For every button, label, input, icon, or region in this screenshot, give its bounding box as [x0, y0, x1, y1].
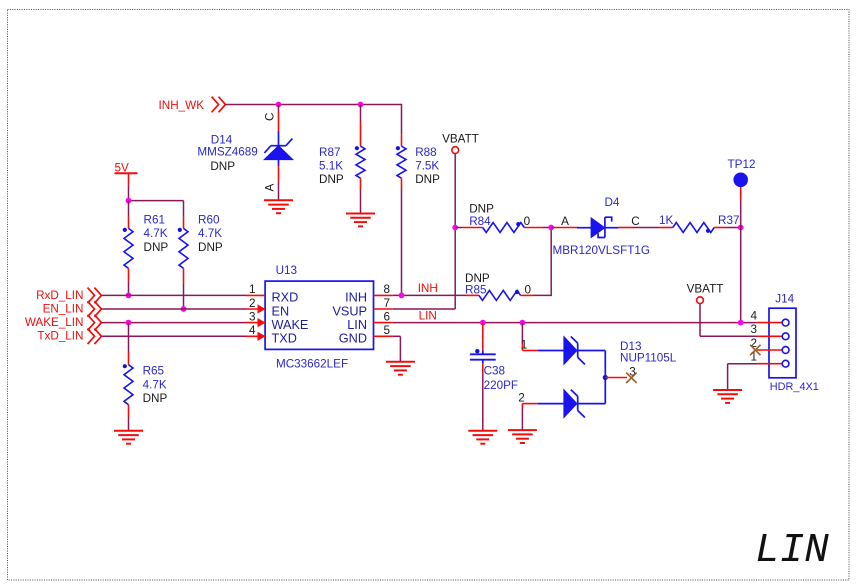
title LIN: [755, 528, 829, 574]
pin 1 circle of J14: [782, 360, 789, 367]
svg-text:R84: R84: [469, 215, 491, 228]
svg-text:R37: R37: [718, 214, 739, 227]
pin number 6: [384, 310, 391, 323]
pin name RXD: [272, 291, 299, 305]
label R37: [659, 214, 739, 227]
junction 5V/R61: [126, 198, 132, 204]
resistor R37: [660, 223, 741, 233]
svg-text:WAKE_LIN: WAKE_LIN: [25, 316, 84, 329]
pin 3 input arrow: [258, 318, 266, 327]
pin number 1 of J14: [750, 351, 757, 364]
pin label A of D4: [561, 215, 569, 228]
IC U13 body: [265, 281, 373, 349]
label D14: [197, 133, 257, 173]
svg-text:6: 6: [384, 310, 391, 323]
label R87: [319, 146, 344, 186]
svg-text:MC33662LEF: MC33662LEF: [276, 358, 348, 371]
svg-text:4.7K: 4.7K: [198, 227, 222, 240]
label U13: [276, 264, 297, 277]
pin 2 input arrow: [258, 304, 266, 313]
wire D4 anode: [551, 227, 577, 229]
svg-text:DNP: DNP: [319, 173, 344, 186]
pin name GND: [339, 332, 367, 346]
svg-text:INH: INH: [418, 282, 438, 295]
junction LIN/TP12: [738, 320, 744, 326]
pin name LIN: [347, 318, 367, 332]
svg-text:3: 3: [249, 310, 256, 323]
svg-text:DNP: DNP: [144, 241, 169, 254]
svg-text:INH: INH: [345, 291, 367, 305]
pin 1 stub of J14: [757, 363, 782, 365]
power 5V: [115, 162, 138, 175]
wire TP12 drop: [740, 187, 742, 323]
svg-text:2: 2: [518, 392, 525, 405]
wire RxD_LIN: [101, 294, 246, 296]
pin 1 stub of U13: [246, 294, 265, 296]
svg-text:RxD_LIN: RxD_LIN: [36, 289, 83, 302]
label C38: [484, 365, 518, 392]
ground below D13 pin2: [508, 430, 537, 443]
svg-text:A: A: [264, 184, 277, 192]
svg-text:EN_LIN: EN_LIN: [43, 302, 84, 315]
pin 3 circle of J14: [782, 333, 789, 340]
svg-text:1: 1: [249, 283, 256, 296]
wire EN_LIN: [101, 308, 246, 310]
svg-text:MMSZ4689: MMSZ4689: [197, 146, 257, 159]
svg-text:R88: R88: [415, 146, 436, 159]
net label LIN: [419, 310, 437, 323]
wire D13 pin1: [522, 323, 538, 351]
no-connect X on D13 pin3: [626, 373, 636, 383]
svg-text:1K: 1K: [659, 214, 674, 227]
resistor R85: [466, 290, 551, 301]
svg-text:1: 1: [521, 339, 528, 352]
junction LIN/C38: [480, 320, 486, 326]
svg-text:8: 8: [384, 283, 391, 296]
pin number 3: [249, 310, 256, 323]
wire VBATT to J14 pin3: [700, 304, 757, 337]
pin 6 stub of U13: [374, 322, 393, 324]
label R61: [144, 213, 169, 253]
ground below U13: [386, 362, 415, 375]
label R60: [198, 213, 223, 253]
resistor R61: [123, 201, 133, 296]
svg-text:C: C: [631, 215, 639, 228]
pin number 5: [384, 324, 391, 337]
wire 5V rail: [129, 200, 184, 202]
svg-text:5: 5: [384, 324, 391, 337]
wire R85 to node A: [550, 228, 552, 297]
wire R88 upper segment: [401, 104, 403, 134]
svg-text:7.5K: 7.5K: [415, 160, 439, 173]
pin 4 input arrow: [258, 332, 266, 341]
diode D4: [577, 217, 619, 237]
svg-text:LIN: LIN: [755, 528, 829, 574]
ground below D14: [264, 200, 293, 213]
svg-text:4.7K: 4.7K: [144, 227, 168, 240]
port WAKE_LIN: [25, 315, 102, 331]
pin number 3 of J14: [750, 323, 757, 336]
pin name INH: [345, 291, 367, 305]
label MBR120VLSFT1G: [553, 244, 650, 257]
svg-text:0: 0: [524, 215, 531, 228]
svg-text:TXD: TXD: [272, 332, 297, 346]
svg-text:LIN: LIN: [347, 318, 367, 332]
svg-text:MBR120VLSFT1G: MBR120VLSFT1G: [553, 244, 650, 257]
ground below R65: [114, 431, 143, 444]
pin 4 circle of J14: [782, 319, 789, 326]
wire D14 cathode: [278, 105, 280, 132]
svg-text:4: 4: [750, 309, 757, 322]
svg-text:GND: GND: [339, 332, 367, 346]
pin number 2: [249, 297, 256, 310]
svg-text:J14: J14: [775, 293, 794, 306]
wire J14 pin1 to ground: [728, 364, 757, 390]
pin 2 stub of J14: [757, 349, 782, 351]
label R65: [143, 365, 168, 406]
svg-text:3: 3: [750, 323, 757, 336]
wire VSUP: [393, 228, 456, 310]
pin label A of D14: [264, 184, 277, 192]
pin 7 stub of U13: [374, 308, 393, 310]
wire VBATT drop: [454, 154, 456, 228]
svg-text:A: A: [561, 215, 569, 228]
svg-text:INH_WK: INH_WK: [159, 99, 205, 112]
svg-text:C: C: [264, 113, 277, 121]
svg-text:U13: U13: [276, 264, 297, 277]
svg-text:C38: C38: [484, 365, 505, 378]
svg-text:7: 7: [384, 297, 391, 310]
junction R61/RxD: [126, 293, 132, 299]
pin name EN: [272, 304, 290, 318]
diode D14: [264, 131, 293, 166]
connector J14 body: [769, 308, 796, 378]
diode D13 lower: [538, 378, 605, 418]
pin number 3 of D13: [629, 366, 636, 379]
wire D13 pin3: [605, 377, 627, 379]
pin number 2 of J14: [750, 337, 757, 350]
pin number 4 of J14: [750, 309, 757, 322]
pin number 4: [249, 324, 256, 337]
svg-text:DNP: DNP: [143, 392, 168, 405]
svg-text:HDR_4X1: HDR_4X1: [770, 381, 819, 393]
capacitor C38: [470, 323, 496, 431]
pin name VSUP: [332, 304, 367, 318]
svg-text:5.1K: 5.1K: [319, 160, 343, 173]
svg-text:TxD_LIN: TxD_LIN: [37, 330, 83, 343]
junction INH_WK/D14: [276, 102, 282, 108]
label HDR_4X1: [770, 381, 819, 393]
port TxD_LIN: [37, 329, 101, 345]
resistor R65: [123, 323, 133, 431]
wire INH_WK rail: [226, 104, 402, 106]
pin number 1: [249, 283, 256, 296]
pin 3 stub of J14: [757, 335, 782, 337]
pin number 7: [384, 297, 391, 310]
svg-text:D4: D4: [605, 196, 620, 209]
resistor R87: [355, 105, 365, 214]
pin number 1 of D13: [521, 339, 528, 352]
pin number 2 of D13: [518, 392, 525, 405]
junction WAKE/R65: [126, 320, 132, 326]
ground below C38: [468, 431, 497, 444]
pin 5 stub of U13: [374, 335, 393, 337]
resistor R88: [396, 134, 406, 295]
testpoint TP12: [728, 158, 756, 187]
svg-text:R65: R65: [143, 365, 165, 378]
svg-text:R60: R60: [198, 213, 220, 226]
wire D14 anode: [278, 166, 280, 200]
pin label C of D14: [264, 113, 277, 121]
wire D13 pin2: [522, 404, 538, 431]
wire 5V drop: [128, 173, 130, 200]
svg-text:DNP: DNP: [415, 173, 440, 186]
label D4: [605, 196, 620, 209]
svg-text:R85: R85: [465, 284, 487, 297]
wire LIN: [393, 322, 757, 324]
svg-text:4: 4: [249, 324, 256, 337]
junction D13 common: [603, 375, 608, 380]
wire INH: [393, 294, 466, 296]
junction INH_WK/R87: [358, 102, 364, 108]
wire D4 cathode: [619, 227, 660, 229]
no-connect X on J14 pin2: [750, 345, 760, 355]
svg-text:VBATT: VBATT: [442, 132, 479, 145]
svg-text:EN: EN: [272, 304, 290, 318]
pin name WAKE: [272, 318, 309, 332]
svg-text:220PF: 220PF: [484, 379, 518, 392]
port EN_LIN: [43, 301, 102, 317]
svg-text:VSUP: VSUP: [332, 304, 367, 318]
svg-text:DNP: DNP: [469, 202, 494, 215]
junction node A: [548, 225, 554, 231]
junction INH/R88: [399, 293, 405, 299]
junction R60/EN: [181, 306, 187, 312]
label D13: [620, 340, 677, 365]
pin 3 stub of U13: [246, 322, 265, 324]
power VBATT upper: [442, 132, 479, 153]
resistor R84: [455, 222, 551, 233]
label R85: [465, 272, 532, 296]
svg-text:LIN: LIN: [419, 310, 437, 323]
pin 4 stub of J14: [757, 322, 782, 324]
svg-text:VBATT: VBATT: [687, 282, 724, 295]
port RxD_LIN: [36, 288, 101, 304]
label R88: [415, 146, 440, 186]
svg-text:2: 2: [249, 297, 256, 310]
svg-text:DNP: DNP: [198, 241, 223, 254]
pin 4 stub of U13: [246, 335, 265, 337]
svg-text:WAKE: WAKE: [272, 318, 309, 332]
junction R37/TP12: [738, 225, 744, 231]
pin 2 stub of U13: [246, 308, 265, 310]
ground below J14 pin1: [713, 390, 742, 403]
svg-text:NUP1105L: NUP1105L: [620, 352, 677, 365]
svg-text:TP12: TP12: [728, 158, 756, 171]
pin 8 stub of U13: [374, 294, 393, 296]
svg-text:R87: R87: [319, 146, 340, 159]
svg-text:R61: R61: [144, 213, 165, 226]
svg-text:0: 0: [525, 284, 532, 297]
wire WAKE_LIN: [101, 322, 246, 324]
resistor R60: [178, 201, 188, 309]
pin 2 circle of J14: [782, 347, 789, 354]
pin label C of D4: [631, 215, 639, 228]
junction LIN/D13: [520, 320, 526, 326]
pin name TXD: [272, 332, 297, 346]
svg-text:DNP: DNP: [210, 160, 235, 173]
junction VBATT/R84/VSUP: [452, 225, 458, 231]
pin number 8: [384, 283, 391, 296]
svg-text:4.7K: 4.7K: [143, 379, 167, 392]
diode D13 upper: [538, 337, 605, 378]
power VBATT lower: [687, 282, 724, 303]
label R84: [469, 202, 530, 228]
net label INH: [418, 282, 438, 295]
svg-text:RXD: RXD: [272, 291, 299, 305]
wire GND pin5: [393, 336, 401, 362]
svg-text:D14: D14: [211, 133, 233, 146]
label MC33662LEF: [276, 358, 348, 371]
ground below R87: [346, 214, 375, 227]
port INH_WK: [159, 97, 226, 113]
wire TxD_LIN: [101, 335, 246, 337]
label J14: [775, 293, 794, 306]
